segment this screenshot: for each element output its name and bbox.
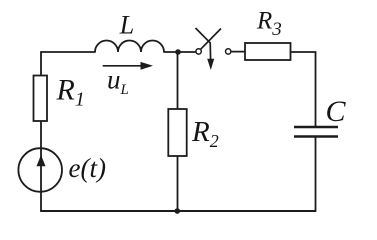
switch closing arrow bbox=[196, 28, 211, 60]
svg-text:C: C bbox=[326, 95, 347, 128]
wire top-left horizontal bbox=[41, 51, 95, 53]
capacitor C bbox=[294, 127, 338, 137]
resistor R3 bbox=[245, 43, 291, 60]
wire inductor to junction bbox=[164, 51, 178, 53]
inductor L bbox=[95, 41, 164, 53]
wire R1 through source to bottom bbox=[40, 121, 42, 211]
switch contact right bbox=[226, 49, 231, 54]
wire bottom bbox=[41, 210, 316, 212]
svg-text:L: L bbox=[119, 11, 134, 40]
wire right lower (capacitor to bottom) bbox=[315, 138, 317, 212]
wire right upper (corner to capacitor) bbox=[291, 52, 316, 126]
wire junction to switch bbox=[178, 51, 196, 53]
svg-text:uL: uL bbox=[107, 65, 129, 99]
switch contact left bbox=[196, 49, 201, 54]
wire switch to R3 bbox=[231, 51, 245, 53]
wire R2 to bottom bbox=[177, 156, 179, 211]
svg-text:R3: R3 bbox=[256, 8, 282, 41]
node junction top (inductor / R2 / switch) bbox=[175, 49, 181, 55]
svg-text:R1: R1 bbox=[56, 74, 85, 111]
wire junction to R2 bbox=[177, 52, 179, 109]
resistor R1 bbox=[34, 76, 48, 122]
wire left vertical top (corner to R1) bbox=[40, 52, 42, 76]
svg-text:R2: R2 bbox=[191, 116, 219, 151]
source e(t) bbox=[18, 148, 62, 192]
node junction bottom (R2 / bottom wire) bbox=[175, 208, 181, 214]
svg-text:e(t): e(t) bbox=[69, 153, 106, 183]
resistor R2 bbox=[168, 109, 186, 156]
switch S bbox=[196, 28, 231, 70]
arrow u_L bbox=[103, 62, 153, 70]
switch blade bbox=[201, 29, 221, 50]
